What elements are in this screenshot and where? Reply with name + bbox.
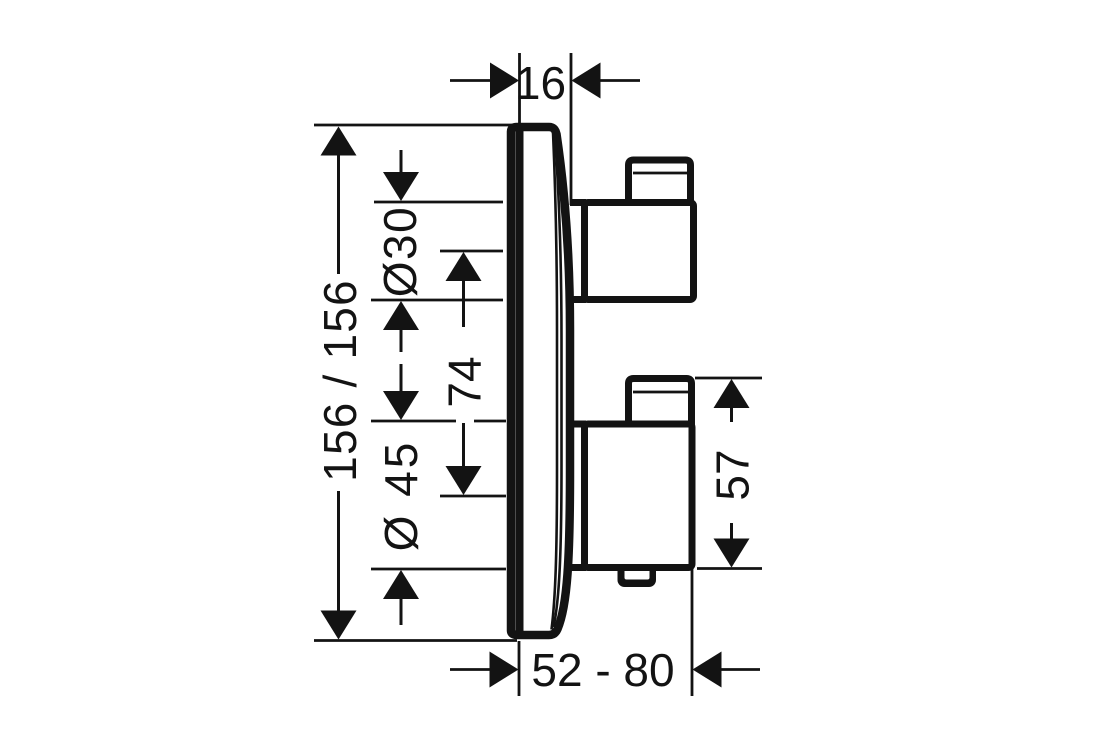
dim 16 : right leader	[601, 79, 641, 82]
svg-text:16: 16	[515, 57, 566, 109]
svg-text:Ø30: Ø30	[374, 206, 426, 297]
top handle bottom edge left stub	[570, 296, 586, 303]
dim O30 : upper tail	[400, 150, 403, 174]
dim 57 : top extension line	[695, 377, 762, 380]
dim 52-80 : left extension line	[518, 641, 521, 696]
bottom handle cap inner line	[633, 391, 688, 394]
dim 156/156 : top extension line	[314, 124, 517, 127]
dim 74 : upper tail	[462, 280, 465, 327]
dim O30 : lower tail	[400, 329, 403, 352]
top handle cap inner line	[633, 172, 688, 175]
dim 74 : bottom arrowhead	[446, 466, 482, 495]
dim O30 : top arrowhead	[383, 172, 419, 201]
dim O30 : bottom tick	[371, 299, 503, 302]
dim 57 : lower tail	[730, 523, 733, 540]
dim 156/156 : bottom extension line	[314, 639, 517, 642]
dim 156/156 : upper tail	[337, 154, 340, 274]
dim 57 : bottom arrowhead	[714, 539, 750, 568]
bottom handle retainer tab	[618, 558, 657, 587]
dim 16 : left extension line	[518, 53, 521, 125]
dim 16 : left leader	[450, 79, 491, 82]
bottom handle cap	[629, 379, 692, 426]
dim 16 : right arrowhead	[572, 63, 601, 99]
dim 156/156 : top arrowhead	[321, 127, 357, 156]
dim 52-80 : right arrowhead	[693, 652, 722, 688]
dim O45 : lower tail	[400, 598, 403, 625]
dim 74 : top tick	[440, 250, 503, 253]
dim 16 : right extension line	[570, 53, 573, 205]
dim O45 : bottom tick	[371, 568, 506, 571]
dim 52-80 : left leader	[450, 668, 490, 671]
plate taper thin line 1	[552, 132, 558, 630]
dim 52-80 : right leader	[722, 668, 761, 671]
dim O45 : bottom arrowhead	[383, 570, 419, 599]
dim 57 : upper tail	[730, 407, 733, 422]
dim O45 : top tick left part	[371, 420, 456, 423]
bottom handle top edge left stub	[570, 421, 586, 428]
svg-text:57: 57	[707, 449, 759, 500]
dim 74 : bottom tick	[440, 495, 506, 498]
svg-text:74: 74	[439, 356, 491, 407]
dim O45 : top tick right part	[474, 420, 506, 423]
escutcheon plate outer contour	[511, 127, 570, 635]
top handle top edge left stub	[570, 199, 586, 206]
dim 156/156 : lower tail	[337, 491, 340, 612]
dim 16 : left arrowhead	[490, 63, 519, 99]
top handle body box	[585, 203, 694, 300]
dim 57 : bottom extension line	[697, 567, 762, 570]
top handle cap	[629, 160, 691, 204]
dim 74 : lower tail	[462, 423, 465, 467]
plate taper thin line 2	[554, 137, 562, 627]
dim O45 : upper tail	[400, 364, 403, 392]
plate front face inner thick line	[516, 130, 524, 632]
svg-text:156 / 156: 156 / 156	[314, 279, 366, 482]
dim 52-80 : left arrowhead	[490, 652, 519, 688]
dim 156/156 : bottom arrowhead	[321, 611, 357, 640]
svg-text:Ø 45: Ø 45	[375, 440, 427, 552]
bottom handle body box	[585, 424, 693, 568]
dim O30 : top tick	[374, 201, 503, 204]
dim 57 : top arrowhead	[714, 379, 750, 408]
dim 52-80 : right extension line	[691, 568, 694, 696]
bottom handle bottom edge left stub	[570, 564, 586, 571]
dim O30 : bottom arrowhead	[383, 301, 419, 330]
dim 74 : top arrowhead	[446, 252, 482, 281]
dim O45 : top arrowhead	[383, 391, 419, 420]
svg-text:52 - 80: 52 - 80	[531, 644, 674, 696]
